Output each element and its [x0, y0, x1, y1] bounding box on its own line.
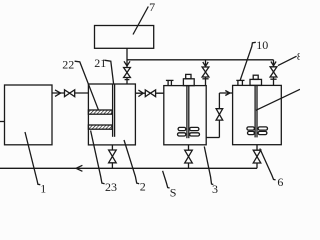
wire: valve to tank 2 top [126, 78, 128, 85]
flange above tank 2 [125, 79, 130, 81]
label 1 leader [25, 132, 40, 185]
wire: valve to bottom line [111, 163, 113, 169]
pipe: tank 2 to tank 3 [135, 92, 163, 94]
pipe: bottom return line S [0, 167, 257, 169]
svg-text:23: 23 [105, 180, 117, 194]
label 6 leader [260, 149, 276, 180]
motor M3 on tank 3 [183, 74, 194, 85]
svg-text:3: 3 [212, 182, 218, 196]
stirrer shaft tank 3 [187, 86, 189, 139]
valve on transfer riser [216, 109, 223, 120]
leader to cut-off label right (stirrer 4) [256, 89, 300, 110]
impeller blades tank 6 [247, 127, 268, 135]
wire: valve to bottom line [188, 163, 190, 168]
wire: valve to bottom line [256, 163, 258, 168]
svg-text:7: 7 [149, 0, 155, 14]
svg-text:2: 2 [140, 180, 146, 194]
valve below tank 7 [124, 68, 131, 78]
motor M6 on tank 6 [250, 75, 262, 85]
pipe: tank 7 downcomer [126, 48, 128, 67]
valve below tank 3 [185, 150, 193, 163]
arrow on return line [76, 165, 82, 171]
arrow on downcomer [124, 61, 130, 66]
drain pipe below tank 3 [188, 145, 190, 150]
wire: header to valve above tank 3 [205, 60, 207, 67]
label 10 leader [240, 42, 256, 80]
label 22 leader [75, 61, 99, 110]
pipe: tank 3 to tank 6 transfer [206, 93, 232, 138]
tank 3 (first stirred reactor) [164, 86, 206, 145]
valve above tank 6 [270, 67, 277, 77]
filter layer 23 (lower hatched bar) [88, 125, 112, 129]
stirrer shaft tank 6 [255, 85, 257, 137]
valve on pipe 2-3 [145, 90, 155, 97]
svg-text:6: 6 [277, 175, 283, 189]
label 7 leader [133, 7, 148, 35]
svg-text:22: 22 [62, 57, 74, 71]
branch to tank 6: arrow [271, 62, 276, 66]
wire: flange to tank 6 top [273, 77, 275, 85]
svg-text:10: 10 [256, 38, 268, 52]
svg-text:8: 8 [297, 51, 300, 63]
label 23 leader [91, 131, 105, 184]
label 21 leader [104, 60, 113, 84]
svg-text:S: S [170, 185, 177, 199]
label S leader [163, 171, 170, 188]
drain pipe below tank 6 [256, 145, 258, 151]
tank 1 (left feed box) [5, 85, 53, 145]
arrow on pipe 1-2 [55, 90, 61, 97]
flange above tank 6 [270, 78, 276, 80]
nozzle on tank 6 top left [236, 80, 244, 85]
label 2 leader [124, 140, 139, 184]
tank 7 (top dosing box) [95, 26, 154, 49]
svg-text:1: 1 [40, 181, 46, 195]
nozzle on tank 3 top left [166, 80, 174, 85]
drain pipe below tank 2 [111, 145, 113, 150]
wire: header end down to valve above tank 6 [273, 60, 275, 67]
pipe: top header [127, 59, 274, 61]
label 3 leader [204, 147, 213, 185]
baffle 21 (inner divider of tank 2) [113, 84, 115, 137]
wire: flange to tank 3 top [205, 77, 207, 86]
valve on pipe 1-2 [65, 90, 75, 97]
svg-text:21: 21 [94, 56, 106, 70]
arrow into tank 6 [225, 91, 230, 96]
leader to cut-off label top right [278, 56, 297, 65]
tank 2 (filter box) [88, 84, 135, 145]
wire: inlet stub at left edge of tank 1 [0, 121, 5, 123]
valve below tank 6 [253, 150, 261, 163]
arrow on pipe 2-3 [138, 90, 143, 97]
impeller blades tank 3 [178, 127, 200, 136]
branch to tank 3: arrow [203, 62, 208, 66]
filter layer 22 (upper hatched bar) [88, 110, 112, 114]
valve above tank 3 [202, 67, 209, 77]
flange above tank 3 [202, 78, 208, 80]
tank 6 (second stirred reactor) [233, 85, 282, 144]
pipe: tank 1 to tank 2 [52, 92, 89, 94]
valve below tank 2 [109, 150, 117, 163]
